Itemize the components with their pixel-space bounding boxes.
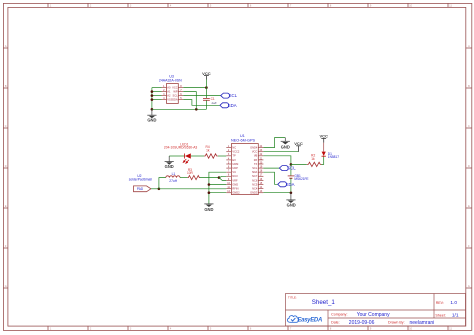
svg-text:NC7: NC7 [252,174,258,178]
wire U1 SDA pin to port [263,172,277,184]
wire U1 SCL pin to port [263,167,279,169]
svg-text:Your Company: Your Company [357,312,390,318]
wire R3 to split junction [200,177,219,179]
IC U3 24AA32A-I/SN [162,84,184,104]
svg-text:1.0: 1.0 [450,300,457,306]
svg-text:SDA: SDA [228,103,237,108]
inductor L1 [166,176,180,178]
wire GND to LED1 cathode [169,155,184,157]
svg-text:UDM: UDM [232,162,238,166]
svg-text:RFIN: RFIN [232,187,238,191]
wire R4 to U1 TP pin [218,155,226,157]
svg-text:C: C [5,125,7,128]
svg-text:VCC: VCC [294,141,303,146]
wire U1 VU pin to GND bus [209,172,226,204]
svg-text:GND: GND [204,207,213,212]
svg-text:Drawn By:: Drawn By: [388,321,405,325]
svg-text:SDA: SDA [286,182,295,187]
wire U1 GND4 to ground [263,138,285,148]
svg-text:VRF: VRF [232,178,238,182]
IC U1 NEO-6M-GPS [226,144,263,195]
wire L1 to R3 [180,177,188,179]
svg-text:Sheet_1: Sheet_1 [312,299,336,306]
svg-text:204-10SURD/S530-A3: 204-10SURD/S530-A3 [164,146,198,150]
junction dot VCC node [205,86,208,89]
svg-text:REV:: REV: [436,301,444,305]
svg-text:NC6: NC6 [252,178,258,182]
junction dot bus pin10 [208,183,211,186]
wire U1 GND3 to battery bottom [263,192,291,194]
svg-text:Sheet:: Sheet: [435,313,445,317]
wire C1 bottom to rail [205,100,207,109]
wire pad to junction [151,188,159,190]
EasyEDA logo [287,316,322,324]
svg-text:GND: GND [147,118,156,123]
svg-text:SDA: SDA [252,170,258,174]
battery GB1 MS621FE [288,164,294,192]
wire U3 pin8 VCC [183,87,206,89]
svg-text:1N5817: 1N5817 [328,155,339,159]
svg-text:L1: L1 [172,172,176,176]
wire U3 pin5 SDA to port [183,100,220,106]
diode D1 1N5817 [322,143,326,157]
pad U2 solderPadSmall [134,186,151,192]
svg-text:VCC: VCC [172,86,178,90]
power flag VCC (D1) [319,133,328,142]
power flag VCC (U1) [294,141,303,152]
svg-text:GND: GND [232,182,238,186]
svg-text:NC3: NC3 [232,174,238,178]
wire U1 GND2 pin12 to bus [209,192,226,194]
svg-text:GND4: GND4 [250,146,258,150]
svg-text:VB: VB [254,154,258,158]
svg-text:VCC: VCC [319,133,328,138]
svg-text:G: G [5,285,7,288]
svg-text:GND3: GND3 [250,191,258,195]
svg-text:10R: 10R [187,171,194,175]
wire GND rail below U3 [152,108,207,110]
wire junction up to L1 [159,178,166,189]
svg-text:G: G [468,285,470,288]
svg-text:NEO-6M-GPS: NEO-6M-GPS [231,139,256,143]
wire U1 VCC pin to power flag [263,151,298,153]
svg-text:2019-09-06: 2019-09-06 [349,320,375,326]
svg-text:D: D [468,165,470,168]
svg-text:WP: WP [173,90,177,94]
svg-text:A1: A1 [167,90,171,94]
svg-text:27uH: 27uH [169,179,178,183]
svg-text:GND2: GND2 [232,191,240,195]
title block [286,294,466,327]
capacitor C1 [203,98,210,100]
wire split to U1 NC3 [219,176,226,177]
svg-text:SDA: SDA [172,98,178,102]
power flag VCC (top) [204,76,209,80]
svg-text:MS621FE: MS621FE [294,177,308,181]
resistor R2 [307,162,322,166]
svg-text:EasyEDA: EasyEDA [297,318,322,324]
svg-text:EX: EX [232,158,236,162]
wire U1 VB to battery node [263,156,291,165]
wire junction to U1 RFIN [159,188,226,190]
net port SDA (U1) [278,182,287,187]
net port SDA [220,103,229,108]
svg-text:RX: RX [254,158,258,162]
svg-text:solderPadSmall: solderPadSmall [129,177,152,181]
svg-text:A0: A0 [167,86,171,90]
ground symbol below U1 left [204,204,213,212]
svg-text:C: C [468,125,470,128]
resistor R4 [204,154,218,158]
junction dot WP drop on rail [195,108,198,111]
ground symbol left of LED1 [165,156,174,169]
wire U3 pin6 SCL to port [183,95,220,97]
svg-text:SCL: SCL [229,93,238,98]
wire U3 pin7 WP down to rail [183,92,196,110]
svg-text:1/1: 1/1 [452,313,459,319]
net port SCL (U1) [279,166,288,171]
junction dot battery node [290,163,293,166]
wire U1 GND pin10 to bus [209,184,226,186]
resistor R3 [188,176,201,180]
wire split to U1 VRF [219,178,226,181]
svg-text:NC: NC [232,146,236,150]
ground symbol GND4 [281,138,290,150]
svg-text:1k: 1k [206,149,210,153]
svg-text:GND: GND [281,144,290,149]
ground symbol below battery [286,193,295,208]
net port SCL [221,93,230,98]
svg-text:UDP: UDP [232,166,238,170]
svg-text:NC5: NC5 [252,182,258,186]
junction dot R3 split [218,176,221,179]
svg-text:VCC: VCC [252,150,258,154]
svg-text:neelamrani: neelamrani [410,320,435,326]
svg-text:TX: TX [254,162,258,166]
junction dot bus pin12 [208,191,211,194]
svg-text:GND: GND [287,203,296,208]
svg-text:TITLE:: TITLE: [288,295,297,299]
svg-text:SCL: SCL [173,94,179,98]
svg-text:Date:: Date: [331,321,340,325]
svg-text:VU: VU [232,170,236,174]
wire VCC to C1 [205,80,207,99]
svg-text:SCL: SCL [252,166,258,170]
svg-text:D: D [5,165,7,168]
wire LED1 anode to R4 [191,155,204,157]
svg-text:1k: 1k [311,157,315,161]
junction dot GND3 node [290,192,293,195]
svg-text:24AA32A-I/SN: 24AA32A-I/SN [159,79,182,83]
svg-text:U1: U1 [240,134,245,138]
wire R2 to D1 [322,156,324,164]
svg-text:PAD: PAD [137,187,144,191]
LED LED1 [183,153,191,163]
wire U3 left pins to GND bus [152,88,162,110]
svg-text:VCC: VCC [202,71,211,76]
junction dot antenna node [158,188,161,191]
svg-text:SCL: SCL [287,166,296,171]
ground symbol below U3 [147,109,156,122]
wire battery node to R2 [291,163,307,165]
svg-text:A2: A2 [167,94,171,98]
svg-text:NC4: NC4 [252,187,258,191]
svg-text:Company:: Company: [331,312,347,316]
svg-text:VCC2: VCC2 [232,150,239,154]
svg-text:TP: TP [232,154,236,158]
svg-text:GND: GND [165,164,174,169]
junction dots on U3 GND bus [151,90,154,110]
